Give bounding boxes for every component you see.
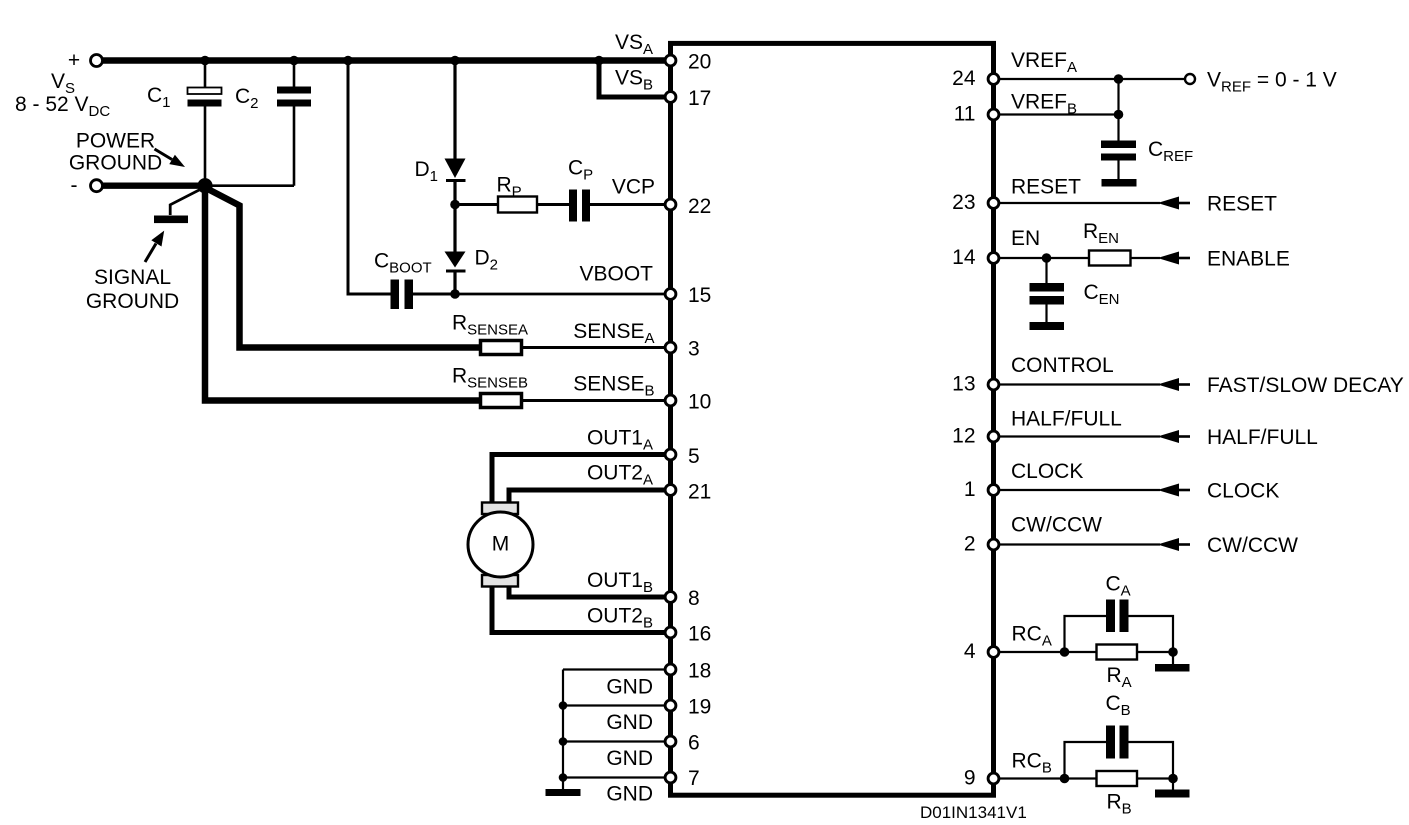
svg-text:8: 8 [688,587,700,610]
wire to pin 3 [522,346,667,349]
node EN junction [1042,253,1052,263]
wire RCA [1000,651,1097,653]
svg-text:SENSEB: SENSEB [573,373,654,400]
pin circles left [665,55,676,783]
pin numbers right [952,67,976,790]
capacitor C2 [235,61,311,186]
svg-text:CLOCK: CLOCK [1011,460,1083,483]
wire RCB gnd stem [1172,779,1174,790]
node VREFA junction [1114,74,1124,84]
wire CA branch [1065,616,1107,652]
wire GND pin 18 [563,668,666,670]
wire D1 to VCP node [453,181,456,205]
ground signal ground symbol [154,188,203,223]
svg-text:12: 12 [952,425,975,448]
arrow ENABLE [1158,252,1180,265]
svg-text:CLOCK: CLOCK [1207,480,1279,503]
svg-text:21: 21 [688,481,711,504]
diode D2 [445,247,499,274]
svg-text:10: 10 [688,391,711,414]
svg-text:EN: EN [1011,227,1040,250]
wire CONTROL [1000,383,1160,385]
resistor RA [1097,645,1138,660]
svg-text:20: 20 [688,51,711,74]
wire CLOCK [1000,489,1160,491]
wire OUT1A [492,455,671,503]
wire D2 to VBOOT node [453,271,456,294]
node junction on rail at C2 [289,56,299,66]
svg-text:RESET: RESET [1011,176,1081,199]
resistor REN [1089,251,1131,266]
capacitor CEN [1030,258,1120,322]
svg-text:CONTROL: CONTROL [1011,354,1114,377]
svg-text:VBOOT: VBOOT [579,263,653,286]
wire OUT2B [492,586,671,633]
svg-text:GND: GND [606,676,653,699]
svg-text:D01IN1341V1: D01IN1341V1 [920,803,1027,822]
wire GND pin 19 [563,704,666,706]
wire to pin 10 [522,399,667,402]
wire VCP node to RP [455,203,498,206]
svg-text:11: 11 [954,103,976,126]
wire EN [1000,257,1089,259]
wire CA to right [1129,616,1174,652]
capacitor CBOOT [374,250,432,310]
svg-text:+: + [68,49,80,72]
node junction on rail at VBOOT branch [343,56,353,66]
terminal VREF [1185,74,1195,84]
node VBOOT junction [450,289,460,299]
wire to pin 15 [455,293,668,296]
wire feeder to sense B [205,186,481,401]
node RCB right junction [1168,774,1178,784]
ground CREF [1102,179,1137,187]
IC U1 body [671,43,994,795]
diode D1 [415,158,466,185]
arrow HALF/FULL [1158,430,1180,443]
motor M terminals [482,503,518,515]
wire GND bus vertical [562,670,564,790]
resistor RSENSEA [481,341,522,355]
arrow to power ground node [155,149,173,160]
arrow CW/CCW [1158,538,1180,551]
svg-text:14: 14 [952,246,976,269]
motor M [468,512,533,577]
svg-text:GROUND: GROUND [86,290,179,313]
capacitor CREF [1101,138,1193,179]
svg-text:6: 6 [688,732,700,755]
terminal - [91,180,103,192]
arrow to signal ground [145,244,156,263]
wire VCP node to D2 [453,205,456,252]
wire D1 branch [453,61,456,159]
wire CREF stem [1117,79,1119,141]
svg-text:4: 4 [964,640,976,663]
capacitor CB [1106,692,1131,759]
node VCP junction [450,200,460,210]
wire RA to right node [1137,651,1173,653]
wire CBOOT to node [413,293,455,296]
arrow CLOCK [1158,484,1180,497]
svg-text:CW/CCW: CW/CCW [1207,534,1298,557]
wire GND pin 6 [563,740,666,742]
capacitor CA [1106,573,1131,633]
svg-text:7: 7 [688,767,700,790]
svg-text:GROUND: GROUND [69,152,162,175]
node junction on rail at VSB branch [594,56,604,66]
node junction on rail at D1 branch [450,56,460,66]
svg-text:16: 16 [688,623,711,646]
svg-text:15: 15 [688,284,711,307]
resistor RSENSEB [481,394,522,408]
svg-text:M: M [492,533,510,556]
wire REN to arrow [1131,257,1161,259]
svg-text:24: 24 [952,67,976,90]
node gnd junction 6 [559,737,568,746]
wire GND pin 7 [563,776,666,778]
node RCA left junction [1060,647,1070,657]
wire feeder to sense A [204,187,481,348]
wire VREFA [1000,78,1185,80]
svg-text:-: - [71,174,78,197]
node RCA right junction [1168,647,1178,657]
svg-text:1: 1 [964,478,976,501]
svg-text:GND: GND [606,783,653,806]
resistor RB [1097,771,1138,786]
node junction on rail at C1 [200,56,210,66]
wire CW/CCW [1000,543,1160,545]
wire node to C2 bottom [205,184,294,187]
node VREFB junction [1114,110,1124,120]
pin circles right [988,74,999,784]
svg-text:5: 5 [688,445,700,468]
ground CEN [1030,322,1065,330]
wire RB to right node [1137,777,1173,779]
svg-text:RESET: RESET [1207,193,1277,216]
svg-text:GND: GND [606,747,653,770]
svg-text:23: 23 [952,191,975,214]
wire RP to CP [537,203,569,206]
resistor RP [498,197,537,213]
svg-text:13: 13 [952,373,975,396]
pin numbers left [688,51,711,791]
wire RESET [1000,202,1160,204]
node RCB left junction [1060,774,1070,784]
capacitor CP [568,157,593,222]
wire HALF/FULL [1000,435,1160,437]
svg-text:9: 9 [964,767,976,790]
wire top supply rail [102,57,668,63]
svg-text:3: 3 [688,338,700,361]
wire OUT2A [509,490,671,503]
wire VBOOT branch [348,61,391,295]
wire CB branch [1065,742,1107,779]
wire minus rail [102,182,203,188]
svg-text:ENABLE: ENABLE [1207,248,1290,271]
svg-text:HALF/FULL: HALF/FULL [1011,408,1122,431]
terminal + [91,55,103,67]
node power ground [197,178,212,193]
ground bar [546,789,581,796]
svg-text:VCP: VCP [612,176,655,199]
ground RCA [1155,664,1190,672]
ground RCB [1155,790,1190,798]
svg-text:CW/CCW: CW/CCW [1011,514,1102,537]
arrow RESET [1158,197,1180,210]
wire CB to right [1129,742,1174,779]
svg-text:GND: GND [606,711,653,734]
wire OUT1B [509,586,671,598]
wire VREFB [1000,113,1119,115]
arrow FAST/SLOW DECAY [1158,378,1180,391]
svg-text:22: 22 [688,195,711,218]
node gnd junction 7 [559,773,568,782]
svg-text:19: 19 [688,696,711,719]
svg-text:SENSEA: SENSEA [573,320,654,347]
wire CP to pin 22 [590,203,668,206]
wire RCA gnd stem [1172,652,1174,664]
wire RCB [1000,777,1097,779]
svg-text:HALF/FULL: HALF/FULL [1207,426,1318,449]
svg-text:POWER: POWER [76,130,155,153]
svg-text:FAST/SLOW DECAY: FAST/SLOW DECAY [1207,374,1404,397]
svg-text:18: 18 [688,660,711,683]
svg-text:2: 2 [964,533,976,556]
svg-text:SIGNAL: SIGNAL [94,266,171,289]
capacitor C1 [147,61,222,186]
svg-text:17: 17 [688,87,711,110]
wire VSB branch [599,61,666,98]
node gnd junction 19 [559,701,568,710]
